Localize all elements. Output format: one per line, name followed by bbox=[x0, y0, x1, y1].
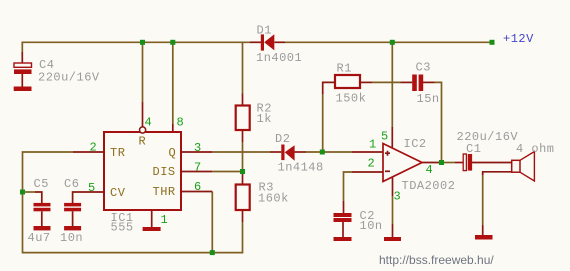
resistor R3 bbox=[236, 185, 250, 211]
pin stub amp pin3 bbox=[392, 177, 394, 196]
ground under amp pin3 bbox=[384, 237, 401, 241]
minus mark inside amp bbox=[385, 170, 390, 172]
svg-text:10n: 10n bbox=[360, 219, 383, 233]
svg-text:1k: 1k bbox=[257, 112, 272, 126]
wire R1 to C3 bbox=[372, 81, 401, 83]
wire speaker return to ground bbox=[482, 173, 484, 225]
wire DIS to R2/R3 node bbox=[212, 171, 243, 173]
svg-text:C6: C6 bbox=[64, 177, 79, 191]
wire C5 tap bbox=[23, 191, 36, 193]
svg-text:3: 3 bbox=[194, 141, 202, 155]
capacitor C4 electrolytic bbox=[14, 63, 32, 74]
svg-text:C3: C3 bbox=[416, 61, 431, 75]
svg-text:5: 5 bbox=[88, 181, 96, 195]
svg-text:+12V: +12V bbox=[503, 32, 534, 46]
wire amp pin3 to ground bbox=[392, 196, 394, 224]
svg-text:1n4148: 1n4148 bbox=[278, 161, 324, 175]
pin stub amp pin5 bbox=[391, 127, 393, 147]
svg-text:THR: THR bbox=[153, 185, 176, 199]
svg-text:160k: 160k bbox=[258, 192, 289, 206]
svg-text:D2: D2 bbox=[275, 132, 290, 146]
svg-text:6: 6 bbox=[194, 180, 202, 194]
capacitor C6 bbox=[64, 203, 81, 211]
pin stub R1 right bbox=[360, 81, 372, 83]
svg-text:2: 2 bbox=[90, 141, 98, 155]
svg-text:1: 1 bbox=[161, 213, 169, 227]
wire R2 bottom to DIS node bbox=[242, 142, 244, 172]
svg-text:5: 5 bbox=[381, 130, 389, 144]
wire pin8 drop from rail bbox=[172, 43, 174, 124]
junction pin5 at rail bbox=[390, 40, 395, 45]
pin stub D2 anode bbox=[295, 151, 307, 153]
capacitor C3 bbox=[412, 75, 423, 92]
pin stub IC1 THR bbox=[181, 191, 212, 193]
ground under C2 bbox=[334, 237, 352, 241]
ground under C6 bbox=[64, 226, 81, 230]
pin stub R2 bottom bbox=[242, 130, 244, 142]
pin stub C4 top bbox=[21, 52, 23, 63]
wire Q output bbox=[212, 151, 270, 153]
pin stub IC1 pin8 bbox=[172, 124, 174, 132]
pin stub speaker bottom bbox=[483, 172, 512, 175]
capacitor C1 electrolytic bbox=[463, 154, 472, 171]
junction output node bbox=[439, 160, 444, 165]
pin stub R3 top bbox=[242, 172, 244, 185]
ground under C4 bbox=[14, 87, 32, 92]
wire TR to bottom rail and THR return bbox=[23, 152, 243, 253]
svg-text:TR: TR bbox=[110, 146, 125, 160]
pin stub speaker ground bbox=[482, 225, 484, 235]
pin stub amp output bbox=[422, 162, 442, 164]
svg-text:1: 1 bbox=[369, 138, 377, 152]
capacitor C5 bbox=[34, 203, 51, 211]
svg-text:http://bss.freeweb.hu/: http://bss.freeweb.hu/ bbox=[379, 253, 494, 267]
wire +12V rail right segment bbox=[285, 41, 492, 43]
svg-text:2: 2 bbox=[368, 157, 376, 171]
svg-text:CV: CV bbox=[110, 186, 126, 200]
pin stub C1 left bbox=[455, 162, 463, 164]
IC U1 555 box bbox=[104, 132, 181, 210]
pin stub C1 right bbox=[472, 162, 512, 164]
pin stub C5 corner bbox=[35, 192, 42, 203]
pin stub IC1 pin4 bbox=[142, 102, 144, 127]
node +12V bbox=[490, 40, 495, 45]
pin stub R2 top bbox=[242, 94, 244, 106]
wire C3 to output node bbox=[435, 82, 442, 162]
svg-text:C5: C5 bbox=[34, 177, 49, 191]
capacitor C2 bbox=[334, 213, 352, 222]
pin stub C2 top bbox=[343, 201, 345, 213]
svg-text:C1: C1 bbox=[466, 142, 481, 156]
svg-text:4: 4 bbox=[426, 163, 434, 177]
svg-text:10n: 10n bbox=[60, 231, 83, 245]
diode D2 bbox=[281, 145, 294, 161]
svg-text:4 ohm: 4 ohm bbox=[516, 142, 555, 156]
wire pin4 drop from rail bbox=[142, 43, 144, 102]
ground under C5 bbox=[34, 226, 51, 230]
pin stub C4 bottom to ground bbox=[21, 74, 23, 87]
pin stub C3 right bbox=[422, 81, 434, 83]
diode D1 bbox=[261, 34, 275, 50]
ground under IC1 pin1 bbox=[143, 227, 161, 231]
wire THR corner down bbox=[211, 192, 213, 253]
wire - input to C2 bbox=[344, 172, 353, 201]
pin stub D1 anode bbox=[275, 41, 286, 43]
svg-text:Q: Q bbox=[169, 146, 177, 160]
wire R2 top to rail bbox=[242, 43, 244, 94]
svg-text:4u7: 4u7 bbox=[28, 231, 51, 245]
wire pin5 drop from rail bbox=[391, 43, 393, 127]
svg-text:R: R bbox=[139, 135, 147, 149]
svg-text:R1: R1 bbox=[337, 62, 352, 76]
junction pin4 at rail bbox=[140, 40, 145, 45]
junction + input node bbox=[320, 150, 325, 155]
ground under speaker bbox=[475, 235, 493, 240]
plus mark inside amp bbox=[385, 151, 390, 156]
pin stub C5 bottom bbox=[41, 211, 43, 226]
svg-text:7: 7 bbox=[194, 161, 202, 175]
pin stub R1 left corner bbox=[323, 82, 335, 94]
resistor R2 bbox=[236, 106, 250, 131]
wire +12V rail left segment bbox=[22, 42, 250, 52]
pin stub C2 bottom to ground bbox=[342, 222, 344, 237]
wire output to C1 bbox=[442, 162, 456, 164]
svg-text:3: 3 bbox=[394, 190, 402, 204]
svg-text:D1: D1 bbox=[257, 24, 272, 38]
pin stub D2 cathode bbox=[270, 151, 281, 153]
resistor R1 bbox=[335, 75, 360, 88]
pin stub C3 left bbox=[401, 81, 413, 83]
svg-text:8: 8 bbox=[177, 116, 185, 130]
svg-text:150k: 150k bbox=[336, 92, 367, 106]
pin 4 inversion circle bbox=[140, 127, 146, 133]
pin stub C6 bottom bbox=[72, 211, 74, 226]
speaker bbox=[512, 152, 535, 182]
junction DIS node bbox=[240, 169, 245, 174]
svg-text:TDA2002: TDA2002 bbox=[402, 179, 456, 193]
pin stub IC1 DIS bbox=[181, 171, 212, 173]
junction THR at bottom rail bbox=[210, 250, 215, 255]
pin stub IC1 TR bbox=[73, 151, 104, 153]
pin stub D1 cathode bbox=[250, 41, 261, 43]
wire D2 anode to op-amp + input bbox=[306, 151, 352, 153]
svg-text:4: 4 bbox=[145, 116, 153, 130]
svg-text:IC2: IC2 bbox=[404, 137, 427, 151]
svg-text:15n: 15n bbox=[417, 92, 440, 106]
op-amp IC2 TDA2002 bbox=[383, 144, 422, 182]
pin stub R3 bottom bbox=[242, 210, 244, 222]
svg-text:1n4001: 1n4001 bbox=[256, 51, 302, 65]
wire R1 left down to + node bbox=[322, 94, 324, 152]
svg-text:220u/16V: 220u/16V bbox=[38, 71, 100, 85]
junction C5 tap bbox=[20, 190, 25, 195]
pin stub IC1 Q bbox=[181, 151, 212, 153]
pin stub IC1 CV and C6 bbox=[73, 192, 104, 203]
pin stub IC1 pin1 bbox=[151, 210, 153, 227]
junction pin8 at rail bbox=[170, 40, 175, 45]
pin stub amp pin3 ground bbox=[392, 224, 394, 237]
svg-text:555: 555 bbox=[111, 221, 134, 235]
svg-text:DIS: DIS bbox=[153, 165, 176, 179]
pin stub amp + input bbox=[352, 151, 383, 153]
pin stub amp - input bbox=[352, 171, 383, 173]
